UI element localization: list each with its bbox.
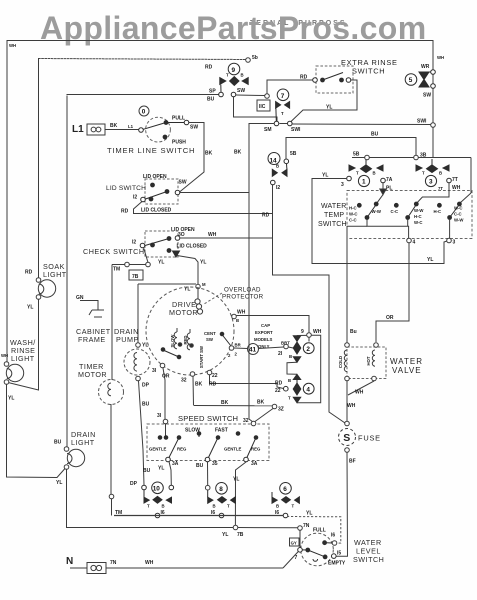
svg-text:I5: I5 xyxy=(337,551,341,557)
wire SW1 line xyxy=(293,123,432,126)
svg-text:YL: YL xyxy=(27,305,33,311)
svg-text:LIGHT: LIGHT xyxy=(43,270,67,279)
svg-text:WH: WH xyxy=(237,310,246,316)
contact 9 xyxy=(219,63,249,97)
svg-text:2I: 2I xyxy=(278,351,283,357)
svg-text:7N: 7N xyxy=(303,523,310,529)
svg-text:BRT: BRT xyxy=(281,341,290,346)
svg-text:YL: YL xyxy=(56,480,62,486)
fuse xyxy=(339,429,356,453)
contact 3 xyxy=(416,159,451,187)
wire YL drain pump top xyxy=(136,284,196,347)
water valve cold solenoid xyxy=(344,343,349,381)
svg-text:B: B xyxy=(213,504,216,509)
wire outer border left xyxy=(6,41,8,363)
svg-text:22: 22 xyxy=(275,388,281,394)
svg-text:GN: GN xyxy=(76,295,84,301)
svg-text:3A: 3A xyxy=(251,461,258,467)
svg-text:CENT: CENT xyxy=(204,331,216,336)
water temp contact group2 xyxy=(406,202,418,219)
terminal 7N water level xyxy=(298,526,303,531)
svg-text:MOTOR: MOTOR xyxy=(169,308,198,317)
svg-text:3: 3 xyxy=(453,240,456,246)
wire timer motor bottom xyxy=(109,404,114,516)
pointer overload xyxy=(204,293,222,304)
svg-text:32: 32 xyxy=(181,378,187,384)
wire 7A into box xyxy=(377,183,386,203)
svg-text:B: B xyxy=(288,378,291,383)
motor terminal 32 xyxy=(190,372,195,406)
wire washrinse down left xyxy=(7,384,66,478)
svg-text:L1: L1 xyxy=(72,124,84,135)
svg-text:SPEED SWITCH: SPEED SWITCH xyxy=(178,414,238,423)
wire RD from lid switch xyxy=(134,202,273,214)
svg-text:TIMER LINE SWITCH: TIMER LINE SWITCH xyxy=(107,146,195,155)
wash rinse light xyxy=(4,362,24,385)
svg-text:DP: DP xyxy=(130,481,138,487)
wire 7N to pivot xyxy=(299,530,301,547)
svg-text:FUSE: FUSE xyxy=(358,434,381,443)
speed switch contacts xyxy=(158,432,258,462)
contact 14 xyxy=(268,153,289,185)
svg-text:5B: 5B xyxy=(353,152,360,158)
wire drain light YL down xyxy=(67,469,233,528)
wire 7T into box xyxy=(417,183,449,203)
svg-text:OVERLOAD: OVERLOAD xyxy=(224,287,261,294)
wire YL check to motor xyxy=(177,256,198,285)
svg-text:SM: SM xyxy=(264,127,272,133)
wire bracket top left xyxy=(297,334,307,336)
svg-text:YL: YL xyxy=(158,260,164,266)
svg-text:RD: RD xyxy=(25,270,33,276)
svg-text:LID CLOSED: LID CLOSED xyxy=(141,208,172,214)
svg-text:SW: SW xyxy=(179,180,187,186)
svg-text:PROTECTOR: PROTECTOR xyxy=(222,294,264,301)
svg-text:BU: BU xyxy=(54,440,62,446)
svg-text:TEMP: TEMP xyxy=(324,212,344,219)
svg-text:BK: BK xyxy=(195,382,203,388)
drive motor xyxy=(146,287,234,375)
svg-text:LID CLOSED: LID CLOSED xyxy=(177,244,208,250)
svg-text:SWITCH: SWITCH xyxy=(353,555,384,564)
contact 8 xyxy=(208,483,236,518)
wire RD drop to fuse xyxy=(273,185,346,423)
svg-text:10: 10 xyxy=(153,486,161,493)
svg-text:BF: BF xyxy=(349,459,356,465)
svg-text:RED: RED xyxy=(183,335,188,344)
wire water temp bottom bus xyxy=(347,219,451,343)
svg-text:BK: BK xyxy=(110,123,118,129)
svg-text:32: 32 xyxy=(243,418,249,424)
svg-text:22: 22 xyxy=(212,373,218,379)
svg-text:W-W: W-W xyxy=(454,218,464,223)
wire OR net xyxy=(376,243,409,342)
svg-text:M: M xyxy=(202,282,206,287)
svg-text:9: 9 xyxy=(301,329,304,335)
svg-text:SW: SW xyxy=(423,93,431,99)
wire second border 5b top xyxy=(39,59,247,60)
svg-text:7B: 7B xyxy=(132,274,139,280)
svg-text:I6: I6 xyxy=(331,533,335,539)
svg-text:WH: WH xyxy=(355,390,364,396)
svg-text:WH: WH xyxy=(145,560,154,566)
lid switch box xyxy=(145,179,178,204)
water level switch circle xyxy=(301,533,334,566)
svg-text:S: S xyxy=(343,432,350,444)
svg-text:3A: 3A xyxy=(172,461,179,467)
wire 35 to contact8 xyxy=(205,462,210,490)
water temp contact group3 xyxy=(448,202,462,219)
svg-text:B: B xyxy=(241,73,244,78)
svg-text:RD: RD xyxy=(205,65,213,71)
svg-text:YL: YL xyxy=(427,257,433,263)
node M junction xyxy=(196,284,200,288)
svg-text:BK: BK xyxy=(205,151,213,157)
svg-text:START SW: START SW xyxy=(199,345,204,368)
wire WH check xyxy=(180,237,272,239)
svg-text:W-C: W-C xyxy=(349,212,358,217)
svg-text:41: 41 xyxy=(249,347,257,354)
wire WR segment xyxy=(432,74,434,84)
contact H-C mid xyxy=(438,203,442,207)
svg-text:C-C: C-C xyxy=(454,212,462,217)
motor terminal 3I xyxy=(160,363,165,419)
terminal 16 wl xyxy=(332,541,337,546)
wire bottom YL rail right xyxy=(238,527,298,529)
svg-text:5B: 5B xyxy=(290,151,297,157)
svg-text:BK: BK xyxy=(234,150,242,156)
svg-text:B: B xyxy=(373,171,376,176)
svg-text:2: 2 xyxy=(306,346,310,353)
svg-text:LIGHT: LIGHT xyxy=(11,354,35,363)
wire timer motor drop xyxy=(111,265,113,381)
svg-text:EXPORT: EXPORT xyxy=(255,330,273,335)
wire SW from timer line switch xyxy=(180,123,205,193)
svg-text:35: 35 xyxy=(212,461,218,467)
svg-text:B: B xyxy=(162,504,165,509)
svg-text:RD: RD xyxy=(300,75,308,81)
svg-text:SWITCH: SWITCH xyxy=(352,67,385,76)
svg-text:GY: GY xyxy=(291,540,297,545)
terminal box GY xyxy=(290,538,300,546)
svg-text:PULL: PULL xyxy=(172,116,185,122)
svg-text:B: B xyxy=(289,354,292,359)
wire second border vertical RD xyxy=(38,59,40,279)
svg-text:W-C: W-C xyxy=(454,206,463,211)
wire 3A to contact10 xyxy=(169,462,171,486)
wire 5B corner xyxy=(286,138,416,160)
water valve box xyxy=(347,347,386,379)
svg-text:B: B xyxy=(276,164,279,169)
svg-text:3B: 3B xyxy=(420,153,427,159)
svg-text:5b: 5b xyxy=(252,55,258,61)
svg-text:1: 1 xyxy=(362,179,366,186)
terminal box 7B xyxy=(129,270,143,280)
svg-text:I2: I2 xyxy=(133,195,137,201)
svg-text:WH: WH xyxy=(1,353,8,358)
terminal 5b top xyxy=(246,58,251,63)
wire soak to washrinse xyxy=(8,299,39,390)
svg-text:SWI: SWI xyxy=(417,119,427,125)
motor winding slow xyxy=(174,328,182,349)
wire YL extra rinse xyxy=(291,80,358,122)
svg-text:LID SWITCH: LID SWITCH xyxy=(106,185,146,192)
svg-text:T: T xyxy=(422,171,425,176)
svg-text:SW: SW xyxy=(237,88,245,94)
svg-text:YL: YL xyxy=(326,105,332,111)
ground cabinet frame xyxy=(80,301,104,318)
node YL bottom rail xyxy=(233,525,238,530)
contact 10 xyxy=(142,482,174,518)
lid switch contacts xyxy=(141,183,180,202)
contact 1 xyxy=(347,160,386,187)
svg-text:BU: BU xyxy=(196,463,204,469)
svg-text:SW: SW xyxy=(190,125,198,131)
contact 6 xyxy=(272,483,299,518)
svg-text:T: T xyxy=(356,171,359,176)
svg-text:BK: BK xyxy=(257,400,265,406)
svg-text:RD: RD xyxy=(209,382,217,388)
svg-text:PUMP: PUMP xyxy=(116,335,139,344)
terminal N box xyxy=(70,563,283,574)
svg-text:RD: RD xyxy=(121,209,129,215)
wire 3B feed g3 xyxy=(460,193,471,203)
timer line switch contacts xyxy=(139,120,189,139)
wire SW node down to contact 7 xyxy=(234,97,278,121)
svg-text:WATER: WATER xyxy=(321,203,347,210)
wire I6 rail xyxy=(114,515,283,517)
svg-text:T: T xyxy=(292,504,295,509)
wire outer right WH down xyxy=(432,41,434,71)
svg-text:IIC: IIC xyxy=(259,104,266,110)
start switch contacts xyxy=(161,348,181,359)
svg-text:6: 6 xyxy=(283,486,287,493)
svg-text:FAST: FAST xyxy=(215,428,228,434)
svg-text:BU: BU xyxy=(142,402,150,408)
svg-text:T: T xyxy=(227,504,230,509)
motor winding red xyxy=(187,329,193,350)
drain pump xyxy=(124,349,150,375)
extra rinse switch box xyxy=(316,66,353,93)
wire TM segment xyxy=(112,262,150,267)
svg-text:0: 0 xyxy=(142,109,146,116)
svg-text:BU: BU xyxy=(371,132,379,138)
svg-text:7N: 7N xyxy=(110,560,117,566)
svg-text:9: 9 xyxy=(232,67,236,74)
svg-text:LID OPEN: LID OPEN xyxy=(143,174,167,180)
wire drain pump bottom BU xyxy=(136,376,144,485)
motor terminal 22 xyxy=(207,370,283,388)
svg-text:BU: BU xyxy=(143,468,151,474)
svg-text:GENTLE: GENTLE xyxy=(149,447,167,452)
node 9 wh xyxy=(307,333,312,342)
wire SM left to BK drop xyxy=(249,124,275,423)
svg-text:T: T xyxy=(288,396,291,401)
svg-text:WR: WR xyxy=(421,64,430,70)
timer line switch cam xyxy=(139,106,170,142)
svg-text:3: 3 xyxy=(341,182,344,188)
water temp switch box xyxy=(347,191,472,239)
wire u loop 2 to 4 xyxy=(287,362,297,374)
svg-text:8: 8 xyxy=(219,486,223,493)
svg-text:3: 3 xyxy=(429,179,433,186)
svg-text:COLD: COLD xyxy=(338,356,343,368)
svg-text:3Z: 3Z xyxy=(278,407,284,413)
contact 5 xyxy=(405,70,435,89)
svg-text:CAP: CAP xyxy=(261,323,270,328)
svg-text:T: T xyxy=(226,73,229,78)
motor terminal BR xyxy=(229,346,234,351)
timer motor xyxy=(99,380,124,405)
svg-text:WH: WH xyxy=(437,55,444,60)
wire outer border top xyxy=(7,40,433,42)
terminal 3I speed xyxy=(163,419,168,437)
wire YL check to TM xyxy=(144,248,149,263)
wire SW node to extra rinse RD xyxy=(236,80,313,98)
extra rinse contacts xyxy=(313,73,351,83)
terminal box IIC xyxy=(257,100,270,111)
svg-text:H-C: H-C xyxy=(349,206,357,211)
svg-text:B: B xyxy=(236,318,239,323)
svg-text:RD: RD xyxy=(262,213,270,219)
overload protector coil xyxy=(195,289,203,314)
terminal 22 contact4 xyxy=(284,386,289,391)
svg-text:Bu: Bu xyxy=(350,329,357,335)
svg-text:7A: 7A xyxy=(386,177,393,183)
svg-text:YL: YL xyxy=(8,396,14,402)
svg-text:CHECK SWITCH: CHECK SWITCH xyxy=(83,247,145,256)
wire valve to fuse xyxy=(345,381,374,426)
svg-text:SWITCH: SWITCH xyxy=(318,221,347,228)
svg-text:B: B xyxy=(276,504,279,509)
wire 3A2 to contact8 T xyxy=(235,462,246,526)
svg-text:TM: TM xyxy=(113,267,120,273)
soak light xyxy=(36,278,55,300)
check switch box xyxy=(145,231,178,257)
svg-text:N: N xyxy=(66,556,73,567)
svg-text:7: 7 xyxy=(295,555,298,561)
svg-text:WH: WH xyxy=(313,329,322,335)
svg-text:T: T xyxy=(281,111,284,116)
svg-text:VALVE: VALVE xyxy=(392,366,422,375)
svg-text:RD: RD xyxy=(275,381,283,387)
wire between 7 terminals xyxy=(280,123,288,125)
wire N diagonal xyxy=(283,552,298,569)
svg-text:I2: I2 xyxy=(276,185,280,191)
svg-text:BK: BK xyxy=(221,400,229,406)
svg-text:LIGHT: LIGHT xyxy=(71,438,95,447)
motor terminal WH xyxy=(232,314,309,333)
svg-text:BU: BU xyxy=(207,97,215,103)
svg-text:YL: YL xyxy=(200,260,206,266)
wire bracket 2-4 xyxy=(297,335,321,402)
svg-text:7: 7 xyxy=(281,93,285,100)
svg-text:HOT: HOT xyxy=(366,356,371,365)
wire BF down xyxy=(336,453,347,557)
wire YL wrap contact1 to node3 xyxy=(312,179,447,264)
svg-text:SWI: SWI xyxy=(291,127,301,133)
speed switch box xyxy=(147,424,269,461)
node SW1 xyxy=(431,123,436,128)
svg-text:YL: YL xyxy=(306,511,312,517)
svg-text:YL: YL xyxy=(233,477,239,483)
svg-text:WH: WH xyxy=(9,43,16,48)
svg-text:SLOW: SLOW xyxy=(170,334,175,348)
svg-text:WATER: WATER xyxy=(390,357,423,366)
drain light xyxy=(64,447,85,470)
water temp contact group1 xyxy=(357,202,378,219)
svg-text:W-W: W-W xyxy=(414,208,424,213)
wire YL dotted to right xyxy=(287,517,341,544)
svg-text:MODELS: MODELS xyxy=(254,337,273,342)
svg-text:GENTLE: GENTLE xyxy=(224,447,242,452)
cent switch contacts xyxy=(220,332,231,346)
wire third border corner xyxy=(66,96,68,447)
contact 2 xyxy=(293,336,314,363)
svg-text:L1: L1 xyxy=(128,124,134,129)
svg-text:4: 4 xyxy=(413,240,416,246)
svg-text:H-C: H-C xyxy=(414,214,422,219)
svg-text:5: 5 xyxy=(409,77,413,84)
svg-text:FRAME: FRAME xyxy=(78,335,106,344)
contact C-C mid xyxy=(394,203,398,207)
svg-text:OR: OR xyxy=(162,374,170,380)
svg-text:REG: REG xyxy=(251,447,261,452)
terminal L1 xyxy=(87,124,105,135)
check switch contacts xyxy=(140,236,180,257)
svg-text:MOTOR: MOTOR xyxy=(78,370,107,379)
wire SW lid to BK xyxy=(180,192,249,194)
wire SW1 to 3B vertical xyxy=(432,127,434,158)
svg-text:DP: DP xyxy=(142,383,150,389)
svg-text:3I: 3I xyxy=(157,413,162,419)
contact 4 xyxy=(293,374,314,402)
svg-text:FULL: FULL xyxy=(313,528,326,534)
svg-text:YL: YL xyxy=(322,173,328,179)
svg-text:H-C: H-C xyxy=(434,209,442,214)
svg-text:W-W: W-W xyxy=(372,209,382,214)
terminal 32 speed xyxy=(251,421,256,426)
svg-text:W-C: W-C xyxy=(414,220,423,225)
svg-text:WH: WH xyxy=(208,232,217,238)
svg-text:C-C: C-C xyxy=(391,209,399,214)
svg-text:PUSH: PUSH xyxy=(172,140,186,146)
wire SP horizontal xyxy=(67,94,219,96)
svg-text:YL: YL xyxy=(222,532,228,538)
wire cap line 41 xyxy=(234,344,293,355)
wire SW right segment xyxy=(432,88,434,123)
svg-text:BR: BR xyxy=(235,343,242,348)
wire BK horizontal xyxy=(194,404,277,421)
contact 7 xyxy=(274,89,292,126)
svg-text:REG: REG xyxy=(177,447,187,452)
water valve hot solenoid xyxy=(372,343,379,381)
svg-text:7T: 7T xyxy=(452,177,458,183)
svg-text:YL: YL xyxy=(158,466,164,472)
svg-text:3I: 3I xyxy=(152,368,157,374)
svg-text:4: 4 xyxy=(306,386,310,393)
svg-text:I2: I2 xyxy=(132,240,136,246)
svg-text:C-C: C-C xyxy=(349,218,357,223)
svg-text:SW: SW xyxy=(206,337,214,342)
svg-text:7B: 7B xyxy=(237,532,244,538)
svg-text:SP: SP xyxy=(209,89,216,95)
svg-text:OR: OR xyxy=(386,315,394,321)
svg-text:B: B xyxy=(439,171,442,176)
svg-text:EMPTY: EMPTY xyxy=(328,561,346,567)
wire 5B-3B line xyxy=(352,155,471,193)
svg-text:T: T xyxy=(147,504,150,509)
